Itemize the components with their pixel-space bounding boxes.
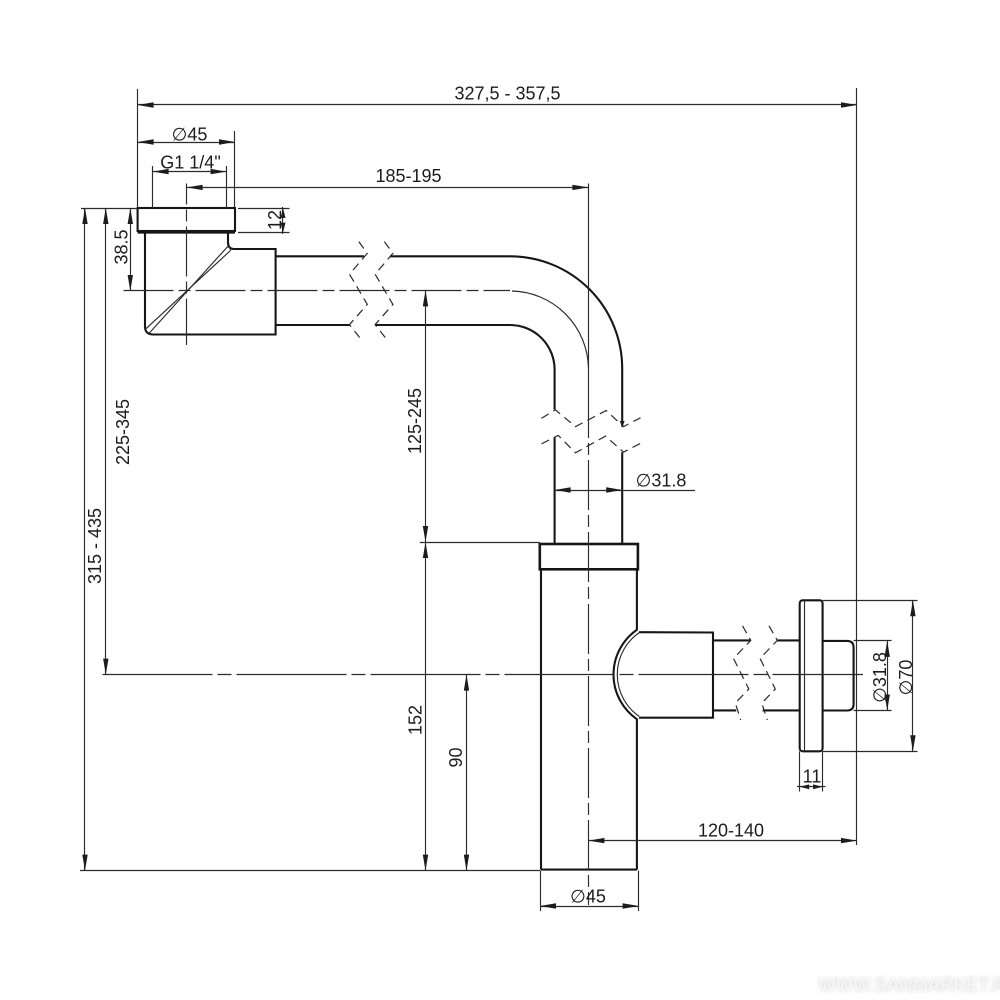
break symbol on vertical pipe zigzag 2 [542, 435, 641, 453]
svg-text:∅45: ∅45 [172, 125, 208, 145]
dimension D31.8 outlet [854, 641, 892, 711]
outlet pipe bottom edge segment 2 [763, 709, 800, 711]
dimension D45 top flange [138, 125, 235, 209]
dimension D31.8 riser pipe [555, 471, 695, 493]
break symbol on outlet pipe zigzag 1 [734, 626, 751, 720]
dimension 38.5 flange to outlet axis [81, 208, 138, 291]
horizontal pipe bottom edge segment 1 [276, 324, 350, 326]
outlet pipe bottom edge segment 1 [713, 709, 736, 711]
bottle trap cup body [541, 570, 637, 870]
dimension G1 1/4" thread [153, 153, 227, 209]
inlet axis centerline vertical [186, 184, 188, 346]
svg-text:∅31.8: ∅31.8 [870, 652, 890, 703]
inlet flange (tailpiece nut) top view body [138, 208, 235, 233]
dimension D70 wall flange [823, 600, 918, 751]
break symbol on outlet pipe zigzag 2 [760, 626, 777, 720]
bottle trap nut [540, 544, 638, 569]
svg-text:90: 90 [446, 747, 466, 767]
outlet pipe top edge segment 1 [713, 639, 751, 641]
dimension 120-140 bottle axis to wall [588, 821, 857, 844]
wall flange rear socket [823, 641, 854, 711]
svg-text:38.5: 38.5 [111, 229, 131, 264]
break symbol on horizontal pipe zigzag 2 [375, 242, 393, 338]
svg-text:225-345: 225-345 [113, 399, 133, 465]
svg-text:185-195: 185-195 [375, 166, 441, 186]
dimension 315-435 overall height [82, 208, 105, 871]
dimension 225-345 [103, 208, 133, 675]
svg-text:327,5 - 357,5: 327,5 - 357,5 [454, 84, 560, 104]
horizontal pipe top edge segment 1 [276, 255, 364, 257]
horizontal pipe bottom edge segment 2 + inner bend arc + vertical pipe left edge [375, 325, 555, 410]
svg-text:120-140: 120-140 [698, 821, 764, 841]
svg-text:11: 11 [803, 767, 822, 787]
pipe bend centerline arc [512, 291, 588, 367]
svg-text:152: 152 [406, 705, 426, 735]
dimension 11 wall flange thickness [797, 751, 826, 791]
elbow/pipe horizontal centerline [124, 290, 511, 292]
elbow miter seam line 1 [150, 247, 231, 333]
dimension 90 outlet axis height [446, 675, 469, 871]
dimension 12 flange height [238, 207, 290, 234]
svg-text:∅45: ∅45 [570, 887, 606, 907]
dimension 327,5-357,5 overall width [138, 84, 858, 846]
outlet axis horizontal centerline [103, 674, 864, 676]
wall flange (escutcheon) [800, 600, 823, 751]
vertical pipe / bottle axis centerline [588, 184, 590, 418]
dimension 185-195 inlet to riser axis [187, 166, 589, 190]
vertical pipe left edge lower segment [554, 437, 556, 543]
dimension 125-245 riser length [405, 290, 428, 870]
outlet elbow nose outer arc [614, 629, 638, 719]
dimension D45 bottle [540, 871, 639, 911]
svg-text:315 - 435: 315 - 435 [85, 508, 105, 584]
watermark www.sanmarket.ru [819, 975, 1000, 995]
tiny arrow at outer bend edge end [620, 421, 625, 428]
break symbol on vertical pipe zigzag 1 [542, 410, 641, 427]
svg-text:12: 12 [265, 210, 285, 230]
break symbol on horizontal pipe zigzag 1 [350, 242, 368, 338]
vertical pipe right edge lower segment [621, 452, 623, 543]
outlet pipe top edge segment 2 [777, 639, 800, 641]
svg-text:125-245: 125-245 [405, 388, 425, 454]
horizontal pipe top edge segment 2 + outer bend arc + vertical pipe right edge [390, 256, 622, 426]
dimension 152 bottle height [406, 542, 540, 871]
svg-text:∅31.8: ∅31.8 [636, 471, 687, 491]
outlet elbow nose inner arc [617, 633, 639, 717]
svg-text:G1 1/4": G1 1/4" [160, 153, 220, 173]
elbow miter seam line 2 [146, 251, 231, 333]
svg-text:WWW.SANMARKET.RU: WWW.SANMARKET.RU [819, 975, 1000, 995]
svg-text:∅70: ∅70 [896, 660, 916, 696]
outlet elbow box [639, 632, 713, 718]
inlet elbow body [145, 233, 276, 335]
ground reference line [80, 870, 540, 872]
